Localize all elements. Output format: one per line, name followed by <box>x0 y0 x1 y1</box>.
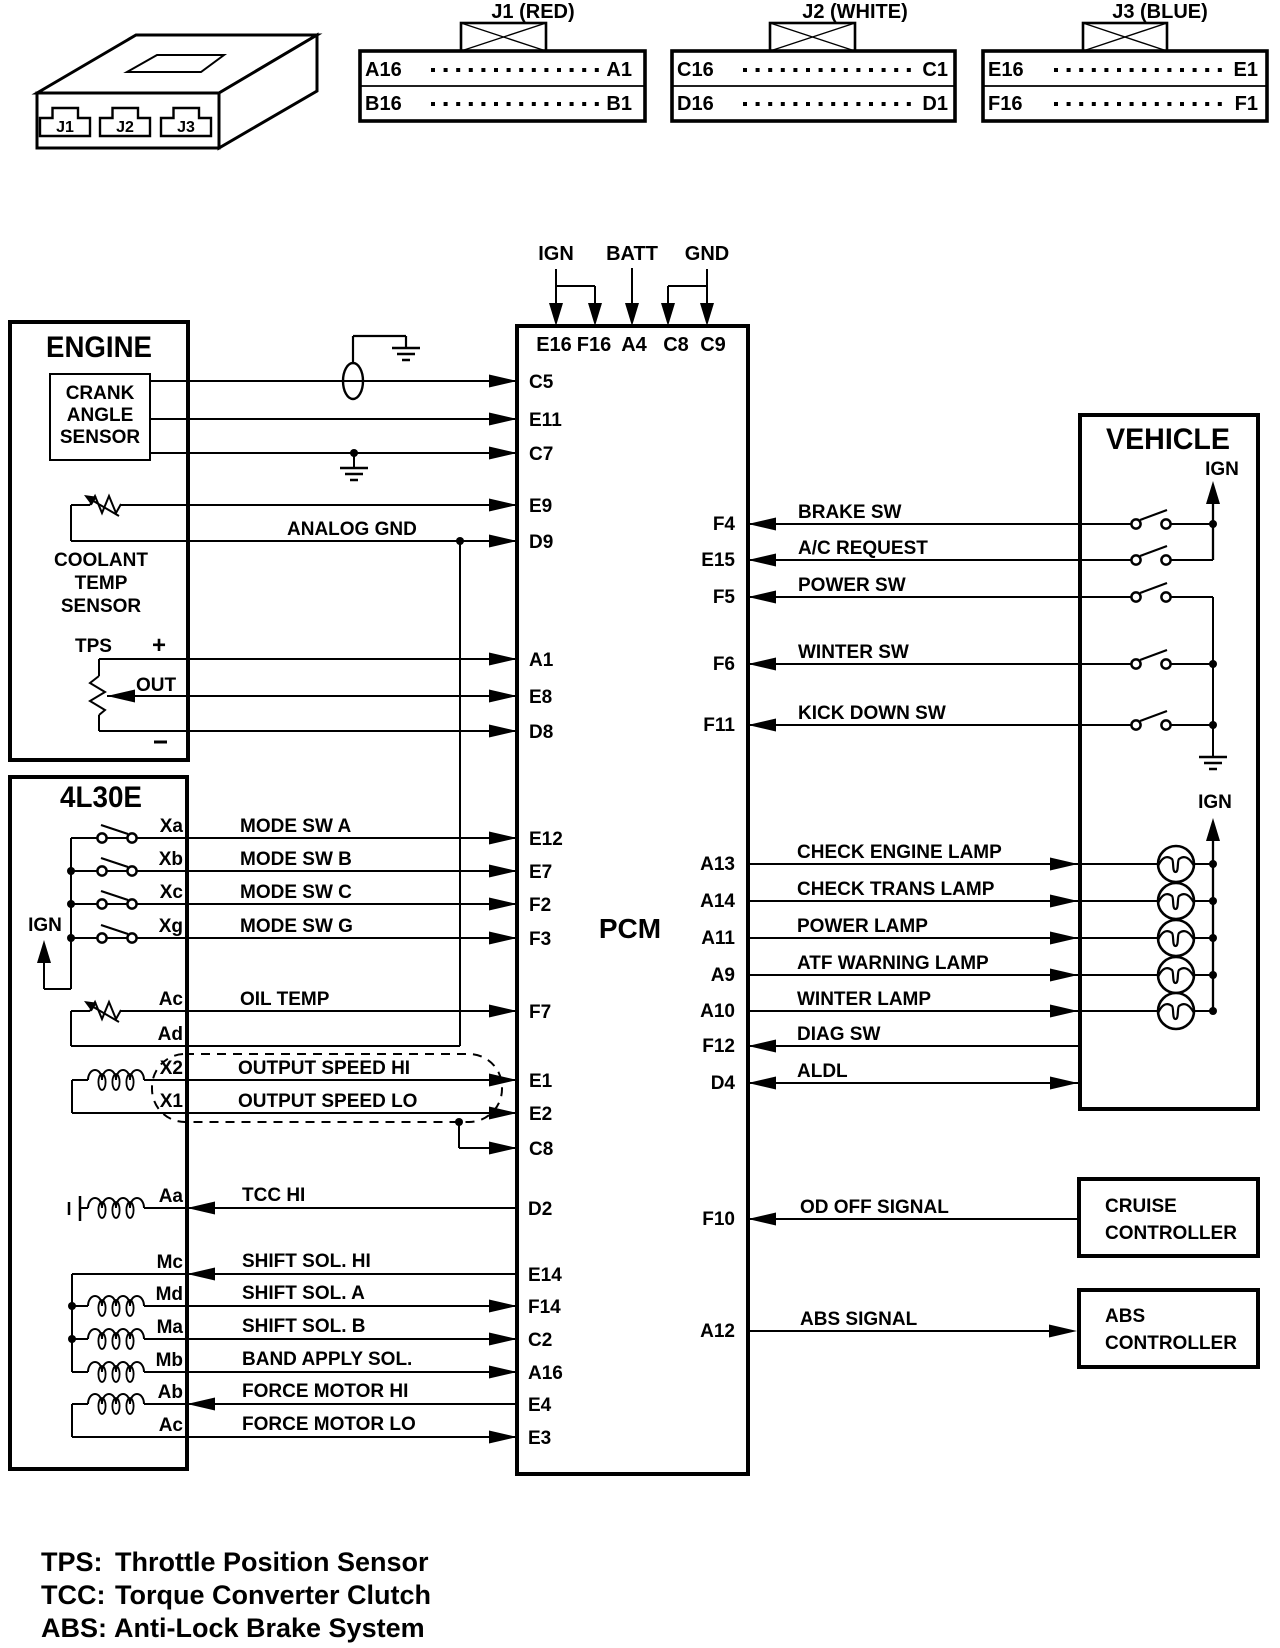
svg-text:+: + <box>152 632 166 659</box>
svg-text:SHIFT SOL. HI: SHIFT SOL. HI <box>242 1251 371 1272</box>
svg-text:J2: J2 <box>116 119 134 136</box>
svg-text:A16: A16 <box>528 1363 563 1384</box>
svg-text:MODE SW A: MODE SW A <box>240 816 351 837</box>
svg-text:TPS: TPS <box>75 636 112 657</box>
svg-text:F11: F11 <box>703 715 735 736</box>
svg-text:F10: F10 <box>702 1209 735 1230</box>
svg-text:IGN: IGN <box>28 915 62 936</box>
svg-text:C16: C16 <box>677 59 714 81</box>
svg-text:F4: F4 <box>713 514 736 535</box>
svg-text:4L30E: 4L30E <box>60 781 142 814</box>
svg-text:ATF WARNING LAMP: ATF WARNING LAMP <box>797 953 989 974</box>
svg-text:OUTPUT SPEED LO: OUTPUT SPEED LO <box>238 1091 417 1112</box>
svg-text:SENSOR: SENSOR <box>60 427 141 448</box>
svg-text:A12: A12 <box>700 1321 735 1342</box>
svg-text:F7: F7 <box>529 1002 551 1023</box>
svg-text:A1: A1 <box>606 59 632 81</box>
svg-text:J3 (BLUE): J3 (BLUE) <box>1112 1 1208 23</box>
svg-text:POWER SW: POWER SW <box>798 575 906 596</box>
svg-text:OUT: OUT <box>136 675 177 696</box>
svg-text:SHIFT SOL. A: SHIFT SOL. A <box>242 1283 365 1304</box>
svg-text:E15: E15 <box>701 550 735 571</box>
svg-text:IGN: IGN <box>1205 459 1239 480</box>
svg-text:Ac: Ac <box>159 989 184 1010</box>
svg-text:COOLANT: COOLANT <box>54 550 148 571</box>
svg-text:Ab: Ab <box>158 1382 183 1403</box>
svg-text:Xa: Xa <box>160 816 184 837</box>
svg-text:BATT: BATT <box>606 243 658 265</box>
svg-text:E7: E7 <box>529 862 552 883</box>
svg-text:SENSOR: SENSOR <box>61 596 142 617</box>
svg-text:Ac: Ac <box>159 1415 184 1436</box>
svg-text:CRANK: CRANK <box>66 383 135 404</box>
svg-text:E3: E3 <box>528 1428 551 1449</box>
svg-text:TEMP: TEMP <box>75 573 128 594</box>
svg-text:B16: B16 <box>365 93 402 115</box>
svg-text:MODE SW B: MODE SW B <box>240 849 352 870</box>
svg-text:F2: F2 <box>529 895 551 916</box>
svg-text:A1: A1 <box>529 650 554 671</box>
svg-text:Ma: Ma <box>157 1317 184 1338</box>
svg-text:F16: F16 <box>988 93 1022 115</box>
svg-text:A16: A16 <box>365 59 402 81</box>
svg-text:CONTROLLER: CONTROLLER <box>1105 1333 1237 1354</box>
svg-text:X1: X1 <box>160 1091 184 1112</box>
svg-text:OD OFF SIGNAL: OD OFF SIGNAL <box>800 1197 949 1218</box>
svg-text:C5: C5 <box>529 372 554 393</box>
svg-text:ENGINE: ENGINE <box>46 331 152 364</box>
svg-text:A13: A13 <box>700 854 735 875</box>
svg-text:Mc: Mc <box>157 1252 184 1273</box>
svg-text:WINTER SW: WINTER SW <box>798 642 909 663</box>
svg-text:IGN: IGN <box>538 243 574 265</box>
svg-text:DIAG SW: DIAG SW <box>797 1024 880 1045</box>
svg-text:E2: E2 <box>529 1104 552 1125</box>
svg-text:ABS:: ABS: <box>41 1613 107 1643</box>
svg-text:TPS:: TPS: <box>41 1547 103 1577</box>
svg-text:C8: C8 <box>663 334 689 356</box>
svg-text:E8: E8 <box>529 687 552 708</box>
svg-text:SHIFT SOL. B: SHIFT SOL. B <box>242 1316 366 1337</box>
svg-text:Xb: Xb <box>159 849 183 870</box>
svg-text:A/C REQUEST: A/C REQUEST <box>798 538 928 559</box>
svg-text:CHECK ENGINE LAMP: CHECK ENGINE LAMP <box>797 842 1002 863</box>
svg-text:F3: F3 <box>529 929 551 950</box>
svg-text:Aa: Aa <box>159 1186 184 1207</box>
svg-text:ABS SIGNAL: ABS SIGNAL <box>800 1309 918 1330</box>
svg-text:E1: E1 <box>1234 59 1258 81</box>
svg-text:Ad: Ad <box>158 1024 183 1045</box>
svg-text:CRUISE: CRUISE <box>1105 1196 1177 1217</box>
svg-text:J2 (WHITE): J2 (WHITE) <box>802 1 908 23</box>
svg-text:CONTROLLER: CONTROLLER <box>1105 1223 1237 1244</box>
svg-text:ABS: ABS <box>1105 1306 1145 1327</box>
svg-text:FORCE MOTOR HI: FORCE MOTOR HI <box>242 1381 408 1402</box>
svg-text:Anti-Lock Brake System: Anti-Lock Brake System <box>114 1613 425 1643</box>
svg-text:C1: C1 <box>922 59 948 81</box>
svg-text:E14: E14 <box>528 1265 562 1286</box>
svg-text:J1 (RED): J1 (RED) <box>491 1 574 23</box>
svg-text:E16: E16 <box>988 59 1024 81</box>
svg-text:E1: E1 <box>529 1071 553 1092</box>
svg-text:Xc: Xc <box>160 882 184 903</box>
svg-text:X2: X2 <box>160 1058 183 1079</box>
svg-text:F1: F1 <box>1235 93 1258 115</box>
svg-text:MODE SW G: MODE SW G <box>240 916 353 937</box>
svg-text:C7: C7 <box>529 444 553 465</box>
svg-text:E16: E16 <box>536 334 572 356</box>
svg-text:WINTER LAMP: WINTER LAMP <box>797 989 931 1010</box>
svg-text:E11: E11 <box>529 410 562 431</box>
svg-text:VEHICLE: VEHICLE <box>1106 423 1230 456</box>
svg-text:OIL TEMP: OIL TEMP <box>240 989 330 1010</box>
svg-text:PCM: PCM <box>599 913 661 944</box>
svg-text:POWER LAMP: POWER LAMP <box>797 916 928 937</box>
svg-text:F6: F6 <box>713 654 735 675</box>
svg-text:A4: A4 <box>621 334 647 356</box>
svg-text:Mb: Mb <box>156 1350 183 1371</box>
svg-text:GND: GND <box>685 243 729 265</box>
svg-text:Xg: Xg <box>159 916 183 937</box>
svg-text:E4: E4 <box>528 1395 552 1416</box>
svg-text:J3: J3 <box>177 119 195 136</box>
svg-text:IGN: IGN <box>1198 792 1232 813</box>
svg-text:FORCE MOTOR LO: FORCE MOTOR LO <box>242 1414 416 1435</box>
svg-text:D16: D16 <box>677 93 714 115</box>
svg-text:Throttle Position Sensor: Throttle Position Sensor <box>115 1547 429 1577</box>
svg-text:B1: B1 <box>606 93 632 115</box>
svg-text:C8: C8 <box>529 1139 553 1160</box>
svg-text:A14: A14 <box>700 891 735 912</box>
svg-text:D4: D4 <box>711 1073 736 1094</box>
svg-text:C2: C2 <box>528 1330 552 1351</box>
svg-text:A9: A9 <box>711 965 735 986</box>
svg-text:BRAKE SW: BRAKE SW <box>798 502 902 523</box>
svg-text:Md: Md <box>156 1284 183 1305</box>
svg-text:D8: D8 <box>529 722 553 743</box>
svg-text:BAND APPLY SOL.: BAND APPLY SOL. <box>242 1349 412 1370</box>
svg-text:A10: A10 <box>700 1001 735 1022</box>
svg-text:J1: J1 <box>56 119 74 136</box>
svg-text:TCC:: TCC: <box>41 1580 105 1610</box>
svg-text:D1: D1 <box>922 93 948 115</box>
svg-text:F12: F12 <box>702 1036 735 1057</box>
svg-text:ANGLE: ANGLE <box>67 405 134 426</box>
svg-text:KICK DOWN SW: KICK DOWN SW <box>798 703 946 724</box>
svg-text:F14: F14 <box>528 1297 561 1318</box>
svg-text:Torque Converter Clutch: Torque Converter Clutch <box>115 1580 431 1610</box>
svg-text:E9: E9 <box>529 496 552 517</box>
svg-text:MODE SW C: MODE SW C <box>240 882 352 903</box>
svg-text:F5: F5 <box>713 587 736 608</box>
svg-text:A11: A11 <box>701 928 735 949</box>
svg-text:ALDL: ALDL <box>797 1061 848 1082</box>
svg-text:D9: D9 <box>529 532 553 553</box>
svg-text:F16: F16 <box>577 334 611 356</box>
svg-text:C9: C9 <box>700 334 726 356</box>
svg-text:TCC HI: TCC HI <box>242 1185 305 1206</box>
svg-text:CHECK TRANS LAMP: CHECK TRANS LAMP <box>797 879 995 900</box>
svg-text:D2: D2 <box>528 1199 552 1220</box>
svg-text:E12: E12 <box>529 829 563 850</box>
svg-text:OUTPUT SPEED HI: OUTPUT SPEED HI <box>238 1058 410 1079</box>
svg-text:ANALOG GND: ANALOG GND <box>287 519 417 540</box>
